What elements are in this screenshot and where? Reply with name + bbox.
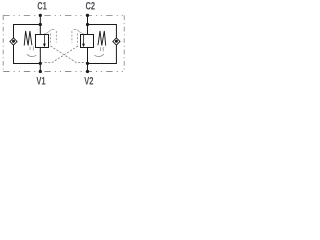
wire left check to bottom [14, 45, 41, 63]
check valve CV1 [10, 38, 17, 45]
port dot C2 [86, 14, 89, 17]
svg-text:C2: C2 [85, 0, 95, 12]
enclosure dash-dot boundary [3, 15, 124, 71]
wire top-right branch to check valve [88, 25, 117, 39]
node junction C2 branch [86, 23, 89, 26]
counterbalance valve body right [81, 35, 94, 48]
flow arrow right valve [83, 35, 85, 44]
pilot line right valve (dashed) [77, 29, 84, 34]
spring right valve [98, 31, 106, 46]
check valve CV2 [113, 38, 120, 45]
port dot V2 [86, 70, 89, 73]
pilot entry marks left spring chamber [27, 46, 37, 56]
spring left valve [24, 31, 32, 46]
pilot line left valve (dashed) [44, 29, 51, 34]
wire top-left branch to check valve [14, 25, 41, 39]
node junction C1 branch [39, 23, 42, 26]
port dot C1 [39, 14, 42, 17]
svg-text:V1: V1 [36, 75, 45, 87]
wire V1 drop [39, 48, 41, 72]
svg-text:V2: V2 [84, 75, 93, 87]
counterbalance valve body left [36, 35, 49, 48]
wire V2 drop [87, 48, 89, 72]
node junction V1 branch [39, 62, 42, 65]
wire right check to bottom [88, 45, 117, 63]
svg-text:C1: C1 [37, 0, 47, 12]
wire C2 riser [87, 15, 89, 34]
node junction V2 branch [86, 62, 89, 65]
flow arrow left valve [43, 35, 45, 44]
wire C1 riser [39, 15, 41, 34]
pilot entry marks right spring chamber [94, 47, 104, 57]
port dot V1 [39, 70, 42, 73]
